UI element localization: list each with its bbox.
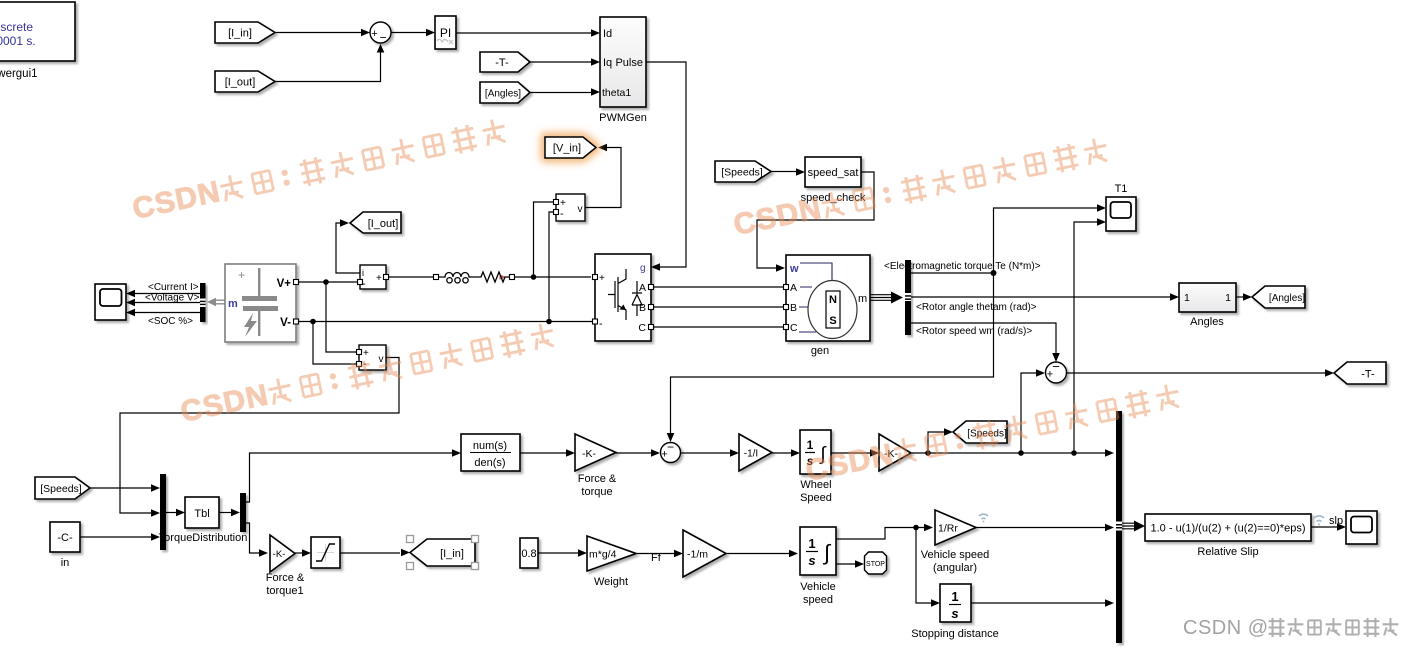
- arrow into [Speeds] goto tip: [944, 428, 953, 436]
- mux Mux3 big: [1116, 411, 1122, 643]
- wire Weight gain to -1/m: [636, 553, 677, 555]
- svg-text:T1: T1: [1115, 183, 1128, 195]
- arrow into Saturation: [302, 549, 311, 557]
- port converter B: [649, 305, 654, 310]
- goto tag [V_in] with orange glow: [545, 137, 596, 158]
- svg-text:A: A: [639, 282, 646, 294]
- wire battery V+ to i1 minus: [299, 281, 357, 283]
- node Vminus v1 junction: [546, 319, 552, 325]
- wire phase B converter to gen: [651, 306, 783, 308]
- node Vminus junction: [310, 319, 316, 325]
- wire v2 out down-left to Mux1 in2: [120, 358, 399, 514]
- svg-text:1: 1: [1184, 292, 1190, 304]
- arrow into [V_in] goto tip: [598, 144, 607, 152]
- svg-text:Force &: Force &: [266, 572, 305, 584]
- svg-text:+: +: [1047, 369, 1053, 381]
- svg-text:V+: V+: [277, 278, 292, 290]
- node RL output junction: [531, 274, 537, 280]
- svg-text:−: −: [379, 31, 386, 45]
- wire gen m bus to busselector1 (triple): [870, 295, 893, 301]
- svg-text:1: 1: [808, 536, 815, 551]
- svg-text:−: −: [667, 440, 674, 454]
- PORTSQ: [294, 200, 789, 367]
- svg-text:Ff: Ff: [651, 552, 662, 564]
- wire phase C converter to gen: [651, 326, 783, 328]
- wire Sum2 to gain -1/I: [681, 452, 733, 454]
- wire -T- from tag to PWMGen Iq: [530, 61, 596, 63]
- svg-text:-1/I: -1/I: [744, 449, 758, 460]
- wire gain K2 to Mux3 in1: [911, 452, 1108, 454]
- svg-text:TorqueDistribution: TorqueDistribution: [159, 532, 248, 544]
- svg-text:PWMGen: PWMGen: [599, 112, 647, 124]
- svg-text:g: g: [640, 263, 646, 274]
- svg-text:m: m: [228, 298, 238, 310]
- from tag [Speeds] bottom-left: [35, 477, 90, 499]
- WATERMARKS: [130, 114, 1183, 487]
- arrow into [Angles] goto tip: [1243, 293, 1252, 301]
- goto tag -T-: [1334, 362, 1386, 384]
- block Angles: [1179, 283, 1236, 328]
- arrow into Sum2 left: [651, 449, 660, 457]
- block PWMGen: [599, 17, 647, 124]
- from tag [I_in]: [215, 22, 275, 43]
- wire 0.8 to Weight gain: [538, 552, 581, 554]
- block speed_sat: [801, 157, 866, 204]
- wire Fcn to scope2: [1311, 526, 1338, 528]
- block -C- constant: [50, 522, 80, 569]
- svg-text:Tbl: Tbl: [194, 508, 209, 520]
- wire Vehicle speed out1 to 1/Rr: [836, 528, 927, 540]
- arrow into gen w: [776, 264, 785, 272]
- svg-text:S: S: [829, 315, 836, 327]
- svg-text:gen: gen: [811, 345, 829, 357]
- arrow into scope1 in1: [126, 290, 135, 298]
- arrow into Demux1: [231, 509, 240, 517]
- arrow into scope T1 in1: [1097, 204, 1106, 212]
- node torque junction: [991, 270, 997, 276]
- svg-text:1.0 - u(1)/(u(2) + (u(2)==0)*e: 1.0 - u(1)/(u(2) + (u(2)==0)*eps): [1151, 523, 1306, 535]
- svg-text:B: B: [639, 302, 646, 314]
- node wheel speed junction a: [925, 450, 931, 456]
- JUNCTIONS: [310, 270, 1077, 530]
- svg-text:+: +: [599, 273, 605, 284]
- block battery: [225, 264, 296, 342]
- wire Mux1 to Tbl: [166, 512, 181, 514]
- wire torque output to node: [911, 272, 994, 274]
- gain -1/I: [739, 434, 772, 471]
- gray credit text bottom right: [1183, 617, 1398, 639]
- demux Demux1: [240, 493, 246, 532]
- wire wheel node up to scope T1 in2: [1074, 222, 1100, 453]
- wire -1/I to Wheel Speed integrator: [772, 452, 794, 454]
- svg-text:Vehicle speed: Vehicle speed: [921, 549, 990, 561]
- arrow into speed_sat: [796, 168, 805, 176]
- arrow gen m bus big: [891, 292, 903, 304]
- goto tag [I_in] selected: [407, 536, 479, 570]
- wire rotor speed to Subtract2 top: [911, 323, 1056, 356]
- sum Sum1: [370, 22, 391, 45]
- wire phase A converter to gen: [651, 286, 783, 288]
- wire torque node down across to Sum2 top: [671, 273, 994, 438]
- wire Saturation to [I_in] goto: [340, 552, 400, 554]
- arrow into PWMGen Id: [591, 29, 600, 37]
- wire -1/m to Vehicle speed integrator: [726, 553, 792, 555]
- arrow into scope1 in2: [126, 299, 135, 307]
- arrow into scope2: [1337, 523, 1346, 531]
- port v1 plus: [554, 200, 559, 205]
- block Wheel Speed integrator: [800, 430, 832, 504]
- gain -1/m: [683, 530, 726, 577]
- svg-text:<Current I>: <Current I>: [148, 282, 199, 293]
- port i1 plus: [384, 275, 389, 280]
- svg-text:-K-: -K-: [273, 549, 286, 560]
- svg-text:-K-: -K-: [582, 448, 597, 460]
- arrow into -T- goto tip: [1325, 369, 1334, 377]
- port RL left: [434, 275, 439, 280]
- svg-text:Speed: Speed: [800, 492, 832, 504]
- wire busselector2 out1 to scope1: [134, 293, 200, 295]
- from tag -T-: [480, 52, 530, 72]
- svg-text:[Speeds]: [Speeds]: [40, 483, 82, 495]
- svg-text:Pulse: Pulse: [615, 57, 643, 69]
- wire v1 minus down to Vminus rail: [549, 212, 554, 322]
- svg-text:C: C: [638, 322, 646, 334]
- port v2 minus: [357, 362, 362, 367]
- svg-text:A: A: [790, 282, 797, 294]
- block STOP: [865, 552, 887, 574]
- svg-text:CSDN @: CSDN @: [1183, 617, 1269, 639]
- svg-text:-: -: [599, 318, 603, 330]
- wire PI to PWMGen Id: [456, 32, 596, 34]
- arrow into Mux1 in2: [151, 509, 160, 517]
- svg-text:−: −: [1052, 359, 1060, 374]
- SIGNAL LABELS (under bars): [145, 261, 1041, 337]
- arrow into Tbl: [176, 509, 185, 517]
- wire torque node up to scope T1 in1: [994, 208, 1101, 273]
- gain Weight m*g/4: [587, 536, 636, 588]
- svg-text:-: -: [560, 208, 564, 220]
- wire RL branch to converter plus: [514, 276, 591, 278]
- arrow red at resistor end: [500, 274, 507, 279]
- sum Subtract2: [1046, 359, 1067, 383]
- svg-text:Weight: Weight: [594, 576, 628, 588]
- wire Sum1 to PI: [391, 32, 433, 34]
- svg-text:+: +: [371, 28, 377, 40]
- arrow into Sum2 top: [667, 433, 675, 442]
- svg-text:[Speeds]: [Speeds]: [721, 167, 763, 179]
- svg-text:[Angles]: [Angles]: [1269, 293, 1305, 304]
- wire node junction to v1 plus: [534, 202, 555, 277]
- svg-text:Stopping distance: Stopping distance: [911, 628, 998, 640]
- wire Vehicle speed out2 to STOP: [836, 563, 858, 565]
- from tag [Speeds] top: [715, 161, 771, 182]
- arrow into scope T1 in2: [1097, 218, 1106, 226]
- svg-text:[Angles]: [Angles]: [485, 89, 521, 100]
- svg-text:m*g/4: m*g/4: [589, 549, 617, 561]
- svg-text:Id: Id: [603, 28, 612, 40]
- svg-text:1: 1: [1225, 292, 1231, 304]
- arrow into Angles block: [1170, 293, 1179, 301]
- resistor R: [470, 272, 510, 282]
- block num(s)/den(s) transfer fcn: [461, 434, 520, 471]
- svg-text:(angular): (angular): [933, 562, 977, 574]
- svg-text:Relative Slip: Relative Slip: [1197, 546, 1258, 558]
- svg-text:Discrete: Discrete: [0, 20, 33, 34]
- sum Sum2: [661, 440, 681, 463]
- arrow Mux3 bus out big: [1134, 521, 1145, 532]
- svg-text:powergui1: powergui1: [0, 68, 38, 80]
- svg-text:s: s: [951, 606, 958, 621]
- wire wheel node up to Subtract2 plus: [1021, 373, 1039, 453]
- port gen C: [784, 325, 789, 330]
- svg-text:i: i: [362, 268, 364, 278]
- block PI: [435, 16, 456, 49]
- wifi badge at 1/Rr: [979, 514, 988, 522]
- svg-text:1: 1: [807, 438, 814, 452]
- svg-text:m: m: [858, 293, 867, 305]
- node wheel speed junction c: [1071, 450, 1077, 456]
- svg-text:Angles: Angles: [1190, 316, 1224, 328]
- svg-text:<Rotor speed wm (rad/s)>: <Rotor speed wm (rad/s)>: [916, 326, 1032, 337]
- mux Mux1: [160, 474, 166, 550]
- wire Tbl to Demux1: [219, 512, 234, 514]
- wire -C- to Mux1 in3: [80, 536, 152, 538]
- svg-text:-T-: -T-: [1361, 369, 1375, 381]
- arrow into STOP: [855, 560, 864, 568]
- inductor L: [439, 273, 471, 283]
- svg-text:slp: slp: [1329, 515, 1343, 527]
- arrow into Sum1: [361, 29, 370, 37]
- svg-text:num(s): num(s): [473, 440, 507, 452]
- wire rotor angle to Angles block: [911, 296, 1173, 298]
- svg-text:<SOC %>: <SOC %>: [148, 316, 193, 327]
- svg-text:+: +: [661, 449, 667, 461]
- wire node to [Speeds] goto: [928, 432, 945, 453]
- svg-text:-1/m: -1/m: [687, 549, 708, 561]
- wire Stopping distance to Mux3 in3: [971, 602, 1108, 604]
- svg-text:0.0001 s.: 0.0001 s.: [0, 34, 36, 48]
- wire Demux1 out2 to gain Force-torque1: [246, 523, 262, 553]
- svg-text:Vehicle: Vehicle: [800, 581, 835, 593]
- wire v1 output to [V_in] goto: [585, 148, 621, 208]
- wire gain to Sum2: [616, 452, 654, 454]
- watermark 2: [731, 134, 1111, 242]
- wire Subtract2 out to -T- goto: [1067, 372, 1329, 374]
- watermark 1: [130, 114, 509, 225]
- svg-text:PI: PI: [440, 26, 451, 40]
- port converter A: [649, 285, 654, 290]
- svg-text:w: w: [789, 263, 799, 275]
- port battery V+: [294, 280, 299, 285]
- ARROWHEADS: [126, 29, 1346, 607]
- svg-text:den(s): den(s): [474, 457, 505, 469]
- wire Demux1 out1 to num den: [246, 453, 455, 502]
- svg-text:v: v: [379, 354, 384, 365]
- arrow into -1/I: [730, 449, 739, 457]
- arrow into PWMGen Iq: [591, 58, 600, 66]
- arrow into Weight gain: [578, 549, 587, 557]
- block i1 current measurement: [360, 265, 386, 290]
- svg-text:s: s: [808, 553, 815, 568]
- powergui1 block: [0, 2, 75, 80]
- wire Wheel Speed to gain K2: [831, 452, 873, 454]
- svg-text:<Voltage V>: <Voltage V>: [145, 293, 200, 304]
- node vehicle speed junction: [913, 525, 919, 531]
- svg-text:1/Rr: 1/Rr: [938, 523, 958, 535]
- wire speed_sat to gen w: [757, 172, 874, 268]
- wire battery V- rail to converter minus: [299, 321, 592, 323]
- block Saturation: [311, 537, 340, 568]
- svg-text:torque1: torque1: [266, 585, 303, 597]
- svg-text:speed: speed: [803, 594, 833, 606]
- LABELS: [0, 0, 1, 1]
- arrow into Mux1 in1: [151, 484, 160, 492]
- arrow into Sum1 bottom: [377, 44, 385, 53]
- port converter plus: [593, 275, 598, 280]
- wire [I_in] to Sum1: [275, 32, 368, 34]
- svg-text:in: in: [61, 557, 70, 569]
- arrow into num den: [452, 449, 461, 457]
- arrow battery m bus gray into busselector2: [207, 298, 216, 306]
- svg-text:1: 1: [951, 589, 958, 604]
- goto tag [Angles]: [1252, 286, 1305, 308]
- svg-text:speed_sat: speed_sat: [808, 167, 859, 179]
- svg-text:[I_in]: [I_in]: [228, 28, 252, 40]
- watermark 3: [178, 319, 557, 429]
- wire gain Force-torque1 to Saturation: [295, 552, 305, 554]
- goto tag [I_out]: [350, 212, 401, 233]
- svg-text:[V_in]: [V_in]: [553, 143, 581, 155]
- wire node Vminus down to v2 minus: [313, 322, 356, 365]
- wire i1 plus to RL branch: [388, 276, 434, 278]
- scope T1: [1106, 183, 1136, 231]
- gain Force-torque -K-: [575, 434, 617, 498]
- arrow into [I_out] goto tip: [340, 219, 349, 227]
- svg-text:-C-: -C-: [57, 532, 73, 544]
- svg-text:[I_out]: [I_out]: [225, 77, 256, 89]
- port v2 plus: [357, 350, 362, 355]
- gain 1/Rr: [921, 510, 990, 574]
- port i1 minus: [358, 280, 363, 285]
- block Vehicle speed integrator: [800, 527, 836, 606]
- block v1 voltage measurement: [556, 194, 585, 221]
- port gen B: [784, 305, 789, 310]
- svg-text:B: B: [790, 302, 797, 314]
- arrow into scope1 in3: [126, 309, 135, 317]
- arrow into gain Force-torque: [566, 449, 575, 457]
- block 0.8 constant: [520, 538, 538, 568]
- node wheel speed junction b: [1018, 450, 1024, 456]
- port converter minus: [593, 319, 598, 324]
- wire PWMGen Pulse to converter g: [646, 62, 686, 267]
- arrow into gain K2: [870, 449, 879, 457]
- from tag [Angles]: [480, 82, 530, 103]
- arrow into Stopping distance: [931, 599, 940, 607]
- wire 1/Rr to Mux3 in2: [976, 527, 1108, 529]
- port gen A: [784, 285, 789, 290]
- arrow into PWMGen theta1: [591, 88, 600, 96]
- svg-text:[I_in]: [I_in]: [440, 548, 464, 560]
- arrow into 1/Rr: [924, 524, 933, 532]
- svg-text:Force &: Force &: [578, 473, 617, 485]
- scope1: [95, 284, 126, 320]
- wifi badge at slp: [1314, 516, 1324, 526]
- gain Force-torque1 -K-: [266, 535, 305, 597]
- port RL right: [510, 275, 515, 280]
- arrow into Subtract2 top: [1052, 353, 1060, 362]
- arrow into Subtract2 plus: [1036, 369, 1045, 377]
- svg-text:Iq: Iq: [603, 57, 612, 69]
- wire [I_out] to Sum1 minus: [275, 46, 381, 82]
- svg-text:<Rotor angle thetam (rad)>: <Rotor angle thetam (rad)>: [916, 302, 1037, 313]
- svg-text:[I_out]: [I_out]: [368, 218, 399, 230]
- svg-text:theta1: theta1: [602, 87, 631, 99]
- svg-text:V-: V-: [280, 317, 291, 329]
- wire busselector2 out3 to scope1: [134, 312, 200, 314]
- port v1 minus: [554, 210, 559, 215]
- svg-text:-T-: -T-: [495, 57, 509, 69]
- port converter C: [649, 325, 654, 330]
- svg-text:torque: torque: [581, 486, 612, 498]
- block Stopping distance integrator: [911, 584, 998, 640]
- wire battery m bus to busselector2 (double gray): [214, 300, 225, 304]
- wire i1 signal out to [I_out] goto: [336, 223, 360, 273]
- block converter (IGBT bridge): [595, 254, 651, 341]
- arrow into Mux3 in1: [1105, 449, 1114, 457]
- port battery V-: [294, 319, 299, 324]
- block v2 voltage measurement: [359, 345, 386, 370]
- svg-text:v: v: [578, 204, 583, 215]
- arrow into -1/m: [674, 550, 683, 558]
- arrow into Mux3 in2: [1105, 524, 1114, 532]
- wire Angles block to [Angles] goto: [1236, 296, 1246, 298]
- watermark 4: [803, 380, 1183, 488]
- scope2: [1346, 511, 1377, 544]
- node Vplus junction: [323, 279, 329, 285]
- arrow into converter g: [651, 263, 660, 271]
- svg-text:C: C: [790, 322, 798, 334]
- wire node down to Stopping distance: [916, 528, 934, 604]
- arrow into PI: [426, 29, 435, 37]
- svg-text:0.8: 0.8: [521, 548, 536, 560]
- wire node Vplus down to v2 plus: [326, 282, 356, 352]
- wire [Speeds] from tag to Mux1 in1: [90, 487, 152, 489]
- arrow into gain Force-torque1: [259, 549, 268, 557]
- gain K2 -K-: [879, 434, 911, 471]
- arrow into [I_in] goto tip: [401, 549, 410, 557]
- block Fcn Relative Slip: [1145, 514, 1311, 558]
- wire [Angles] from tag to PWMGen theta1: [530, 92, 596, 94]
- arrow into Mux3 in3: [1105, 599, 1114, 607]
- wire [Speeds] from tag to speed_sat: [771, 171, 800, 173]
- svg-text:N: N: [829, 294, 837, 306]
- svg-text:STOP: STOP: [866, 561, 885, 568]
- goto tag [Speeds]: [953, 421, 1007, 443]
- svg-text:+: +: [376, 273, 382, 284]
- block Tbl: [159, 497, 248, 544]
- arrow into Mux1 in3: [151, 533, 160, 541]
- svg-text:+: +: [238, 268, 245, 282]
- bus selector2: [200, 283, 206, 322]
- wire num den to gain Force-torque: [520, 452, 569, 454]
- block gen PMSM: [786, 255, 870, 357]
- from tag [I_out]: [215, 71, 275, 92]
- arrow into Vehicle speed: [789, 550, 798, 558]
- bus selector1: [905, 260, 911, 335]
- wire Mux3 bus out to Fcn (triple): [1122, 523, 1138, 529]
- arrow into Wheel Speed: [791, 449, 800, 457]
- wire busselector2 out2 to scope1: [134, 302, 200, 304]
